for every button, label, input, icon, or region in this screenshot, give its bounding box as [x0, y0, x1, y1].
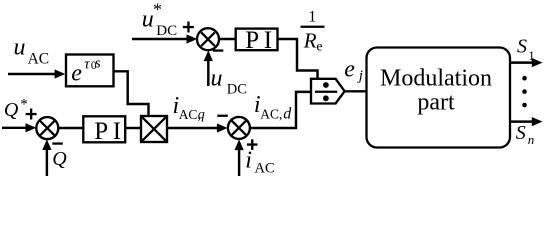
svg-text:AC: AC	[255, 160, 275, 176]
svg-text:part: part	[417, 90, 455, 116]
svg-text:DC: DC	[227, 81, 247, 97]
svg-text:*: *	[20, 96, 28, 112]
svg-text:q: q	[198, 108, 205, 123]
svg-text:S: S	[516, 122, 526, 144]
svg-text:PI: PI	[94, 118, 125, 145]
svg-text:Q: Q	[52, 148, 67, 170]
svg-text:u: u	[142, 7, 154, 33]
svg-text:PI: PI	[245, 27, 276, 54]
svg-text:u: u	[14, 35, 26, 61]
svg-text:e: e	[316, 39, 322, 54]
svg-text:e: e	[71, 60, 82, 86]
svg-text:n: n	[528, 132, 535, 147]
svg-text:e: e	[344, 57, 355, 83]
svg-text:AC,: AC,	[260, 107, 282, 122]
svg-text:*: *	[153, 0, 162, 20]
svg-text:AC: AC	[28, 50, 50, 67]
svg-text:1: 1	[528, 48, 535, 63]
svg-text:R: R	[303, 28, 317, 52]
svg-text:Q: Q	[4, 99, 19, 121]
svg-text:s: s	[95, 56, 101, 72]
svg-text:d: d	[283, 106, 292, 123]
svg-text:i: i	[245, 148, 252, 174]
svg-text:DC: DC	[156, 23, 177, 39]
svg-text:S: S	[517, 36, 527, 58]
svg-text:τ: τ	[84, 56, 90, 72]
svg-text:Modulation: Modulation	[380, 66, 492, 92]
svg-text:u: u	[211, 66, 223, 92]
svg-text:1: 1	[308, 8, 316, 25]
